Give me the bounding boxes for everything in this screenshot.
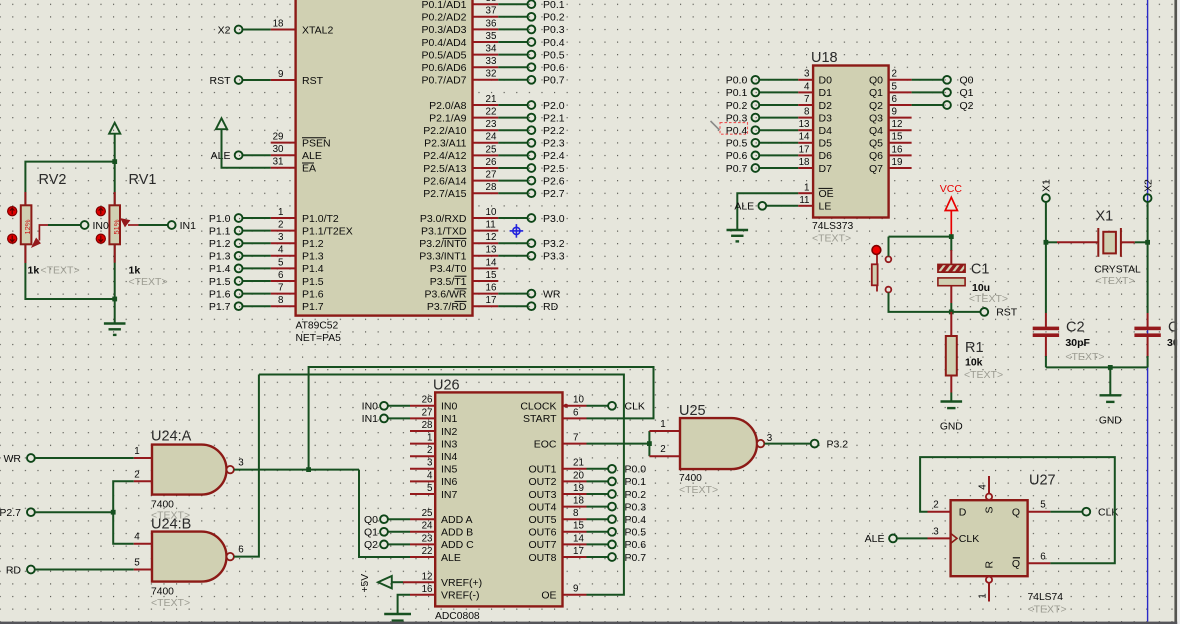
svg-text:12: 12 (892, 119, 903, 130)
window edge bottom (0, 622, 1177, 624)
svg-text:EOC: EOC (534, 438, 557, 450)
svg-text:19: 19 (573, 483, 584, 494)
VCC stem (red) (950, 211, 952, 236)
wire to RST terminal (951, 311, 980, 313)
wire pin 36 to terminal P0.3 (498, 28, 527, 30)
wire OUT5 to P0.4 (587, 518, 609, 520)
window edge right (1174, 0, 1177, 624)
terminal P0.6 (U18) (752, 152, 760, 160)
wire power to EA pin 31 (222, 129, 271, 168)
svg-text:5: 5 (427, 483, 433, 494)
terminal P0.4 (528, 38, 536, 46)
svg-text:P0.2: P0.2 (543, 12, 565, 24)
capacitor C2 (1033, 327, 1059, 337)
svg-text:GND: GND (940, 422, 963, 433)
svg-text:IN0: IN0 (362, 401, 379, 413)
svg-text:D3: D3 (819, 112, 833, 124)
terminal X2 (235, 26, 243, 34)
svg-text:P3.0: P3.0 (543, 213, 565, 225)
wire OE to ground (737, 193, 798, 229)
svg-text:WR: WR (543, 288, 561, 300)
svg-text:P0.6: P0.6 (625, 539, 647, 551)
terminal CLK (608, 402, 616, 410)
NAND gate U24:B body (152, 532, 226, 582)
svg-text:5: 5 (892, 81, 898, 92)
svg-text:P0.1/AD1: P0.1/AD1 (422, 0, 467, 11)
wire button bottom (889, 293, 952, 312)
svg-text:ADD C: ADD C (441, 539, 474, 551)
push button (872, 255, 892, 293)
svg-text:<TEXT>: <TEXT> (679, 484, 718, 496)
U18 pin 6 Q2 (869, 94, 912, 112)
U26 pin 16 VREF(-) (410, 584, 480, 602)
svg-text:P0.4: P0.4 (726, 125, 748, 137)
U26 pin 23 ADD C (410, 533, 474, 551)
svg-text:P0.5/AD5: P0.5/AD5 (422, 49, 467, 61)
wire terminal P1.0 to pin 1 (243, 217, 271, 219)
wire Q1 to ADD B (388, 531, 410, 533)
U26 pin 27 IN1 (410, 407, 458, 425)
svg-text:P3.2/INT0: P3.2/INT0 (419, 238, 466, 250)
U26 pin 25 ADD A (410, 508, 473, 526)
svg-text:13: 13 (799, 119, 810, 130)
U18 pin 16 Q6 (869, 144, 912, 162)
svg-text:20: 20 (573, 470, 584, 481)
wire P2.7 to U24:A pin 2 (113, 481, 134, 512)
junction U24:A output (306, 467, 311, 472)
RV2 top lead maroon part (24, 192, 26, 205)
svg-text:P2.3: P2.3 (543, 138, 565, 150)
U26 pin 21 OUT1 (528, 458, 586, 476)
svg-text:27: 27 (486, 170, 497, 181)
svg-text:24: 24 (422, 521, 433, 532)
svg-text:P0.1: P0.1 (625, 476, 647, 488)
svg-text:OUT2: OUT2 (528, 476, 556, 488)
svg-text:Q0: Q0 (869, 75, 883, 87)
terminal P0.3 (528, 26, 536, 34)
U26 pin 1 IN3 (410, 433, 458, 451)
U26 pin 8 OUT5 (528, 508, 586, 526)
svg-text:9: 9 (573, 584, 578, 595)
U26 pin 10 CLOCK (520, 395, 586, 413)
MCU pin 34 P0.5/AD5 (422, 44, 499, 62)
svg-text:ALE: ALE (441, 552, 461, 564)
junction VCC node (949, 234, 954, 239)
ground at U18 OE (727, 230, 749, 241)
svg-text:<TEXT>: <TEXT> (151, 597, 190, 609)
svg-text:P2.0: P2.0 (543, 100, 565, 112)
svg-text:OUT4: OUT4 (528, 501, 556, 513)
U27 pin 3 CLK stub (928, 537, 951, 539)
svg-text:P1.5: P1.5 (209, 276, 231, 288)
U26 pin 17 OUT8 (528, 546, 586, 564)
svg-text:17: 17 (486, 295, 497, 306)
svg-text:3: 3 (278, 232, 284, 243)
terminal P0.3 (608, 503, 616, 511)
svg-text:29: 29 (273, 132, 284, 143)
wire Q2 to terminal (912, 104, 943, 106)
svg-text:ALE: ALE (734, 201, 754, 213)
U18 pin 4 D1 (798, 81, 832, 99)
junction pots bottom (112, 297, 117, 302)
svg-text:11: 11 (799, 195, 809, 206)
terminal IN0 (81, 221, 89, 229)
R1 bottom lead (950, 376, 952, 393)
wire P2.7 (35, 511, 113, 513)
svg-text:2: 2 (892, 69, 897, 80)
svg-text:7: 7 (804, 94, 809, 105)
wire WR to U24:A pin 1 (35, 457, 134, 459)
wire to crystal ground (1109, 367, 1111, 394)
svg-text:4: 4 (134, 532, 140, 543)
MCU pin 6 P1.5 (271, 270, 324, 288)
power symbol at EA (216, 118, 227, 129)
svg-text:Q5: Q5 (869, 138, 883, 150)
svg-text:6: 6 (1040, 551, 1046, 562)
svg-text:WR: WR (4, 453, 22, 465)
svg-text:P0.6: P0.6 (543, 62, 565, 74)
U18 pin 13 D4 (798, 119, 832, 137)
svg-text:25: 25 (486, 144, 497, 155)
svg-text:17: 17 (573, 546, 584, 557)
svg-text:P0.0: P0.0 (625, 464, 647, 476)
wire pin 24 to terminal P2.3 (498, 142, 527, 144)
svg-text:P3.5/T1: P3.5/T1 (430, 276, 467, 288)
svg-text:28: 28 (486, 182, 497, 193)
svg-text:24: 24 (486, 132, 497, 143)
svg-text:IN7: IN7 (441, 489, 458, 501)
svg-text:1k: 1k (28, 264, 40, 276)
U26 pin 7 EOC (534, 433, 587, 451)
wire +5V to VREF(+) (392, 581, 403, 583)
svg-text:RST: RST (996, 307, 1018, 319)
wire terminal P1.5 to pin 6 (243, 280, 271, 282)
svg-text:7: 7 (573, 433, 578, 444)
svg-text:CLK: CLK (959, 533, 979, 545)
terminal ALE (U18) (758, 202, 766, 210)
svg-text:Q0: Q0 (960, 75, 974, 87)
terminal WR (27, 454, 35, 462)
U26 pin 28 IN2 (410, 420, 458, 438)
svg-text:OUT5: OUT5 (528, 514, 556, 526)
svg-text:16: 16 (422, 584, 433, 595)
svg-text:P0.6: P0.6 (726, 150, 748, 162)
svg-text:9: 9 (892, 107, 897, 118)
wire terminal X2 to pin 18 (243, 29, 271, 31)
svg-text:3: 3 (804, 69, 810, 80)
MCU pin 29 PSEN (271, 132, 331, 150)
svg-text:LE: LE (819, 201, 832, 213)
svg-text:18: 18 (799, 157, 810, 168)
svg-text:18: 18 (573, 496, 584, 507)
IC U26 ADC0808 body (435, 392, 562, 606)
svg-text:37: 37 (486, 6, 497, 17)
U18 pin 18 D7 (798, 157, 832, 175)
terminal P2.5 (528, 164, 536, 172)
U18 pin 3 D0 (798, 69, 832, 87)
U26 pin 24 ADD B (410, 521, 473, 539)
capacitor C3 (1134, 327, 1160, 337)
svg-text:R: R (983, 561, 995, 569)
U26 pin 18 OUT4 (528, 496, 586, 514)
svg-text:U24:A: U24:A (151, 429, 192, 445)
svg-text:P3.7/RD: P3.7/RD (427, 301, 467, 313)
terminal P0.3 (U18) (752, 114, 760, 122)
svg-text:22: 22 (486, 107, 497, 118)
U26 pin 22 ALE (410, 546, 461, 564)
MCU pin 37 P0.2/AD2 (422, 6, 499, 24)
wire R1 to ground (950, 393, 952, 401)
RV1 lead maroon part (114, 244, 116, 262)
U26 pin 3 IN5 (410, 458, 458, 476)
wire X1 net to crystal (1046, 241, 1057, 243)
svg-text:P3.2: P3.2 (543, 238, 565, 250)
svg-text:P2.0/A8: P2.0/A8 (429, 100, 467, 112)
svg-text:D6: D6 (819, 150, 833, 162)
wire terminal ALE to pin 30 (243, 154, 271, 156)
U27 pin 1 R (bottom) (986, 577, 992, 583)
wire pin 10 to terminal P3.0 (498, 217, 527, 219)
U27 pin 5 Q stub (1028, 511, 1051, 513)
svg-text:CRYSTAL: CRYSTAL (1094, 265, 1141, 276)
svg-text:<TEXT>: <TEXT> (41, 264, 80, 276)
terminal X2 (1144, 194, 1152, 202)
U18 pin 7 D2 (798, 94, 832, 112)
wire crystal to X2 net (1135, 241, 1148, 243)
net U24:A out to ADC START/ALE (309, 367, 654, 470)
svg-text:6: 6 (573, 407, 579, 418)
wire C3 to gnd rail (1147, 356, 1149, 367)
svg-text:Q: Q (1012, 507, 1020, 519)
U25 output bubble (757, 440, 764, 447)
svg-text:P0.5: P0.5 (726, 138, 748, 150)
MCU pin 2 P1.1/T2EX (271, 220, 353, 238)
wire pin 12 to terminal P3.2 (498, 242, 527, 244)
svg-text:OUT7: OUT7 (528, 539, 556, 551)
svg-text:D0: D0 (819, 75, 833, 87)
svg-text:P2.2: P2.2 (543, 125, 565, 137)
svg-text:P2.1: P2.1 (543, 112, 565, 124)
svg-text:Q0: Q0 (364, 514, 378, 526)
button red indicator (872, 246, 881, 255)
NAND gate U24:A body (152, 445, 226, 495)
U24:B pin 4 stub (134, 543, 152, 545)
svg-text:<TEXT>: <TEXT> (1096, 275, 1135, 287)
svg-text:Q7: Q7 (869, 163, 883, 175)
MCU pin 33 P0.6/AD6 (422, 56, 499, 74)
terminal Q2 (380, 541, 388, 549)
wire Q0 to terminal (912, 79, 943, 81)
MCU pin 23 P2.2/A10 (423, 119, 498, 137)
terminal P1.1 (235, 227, 243, 235)
svg-text:IN4: IN4 (441, 451, 458, 463)
svg-text:28: 28 (422, 420, 433, 431)
svg-text:33: 33 (486, 56, 497, 67)
svg-text:START: START (523, 413, 557, 425)
svg-text:23: 23 (422, 533, 433, 544)
wire terminal P1.1 to pin 2 (243, 230, 271, 232)
svg-text:2: 2 (660, 444, 665, 455)
svg-text:10k: 10k (965, 357, 983, 369)
svg-text:51%: 51% (112, 219, 121, 234)
svg-text:4: 4 (804, 81, 810, 92)
wire pin 35 to terminal P0.4 (498, 41, 527, 43)
svg-text:14: 14 (573, 533, 584, 544)
svg-text:IN1: IN1 (180, 220, 197, 232)
C1 bottom lead (950, 286, 952, 303)
svg-text:D1: D1 (819, 87, 833, 99)
U26 pin 19 OUT3 (528, 483, 586, 501)
svg-text:4: 4 (278, 245, 284, 256)
cursor crosshair marker (510, 224, 524, 238)
svg-text:17: 17 (799, 144, 810, 155)
terminal P0.5 (U18) (752, 139, 760, 147)
U18 pin 12 Q4 (869, 119, 912, 137)
wire Q2 to ADD C (388, 543, 410, 545)
terminal P2.0 (528, 101, 536, 109)
svg-text:P2.2/A10: P2.2/A10 (423, 125, 466, 137)
svg-text:6: 6 (278, 270, 284, 281)
svg-text:2: 2 (134, 469, 139, 480)
svg-text:6: 6 (238, 545, 244, 556)
svg-text:P2.4/A12: P2.4/A12 (423, 150, 466, 162)
IC U27 74LS74 body (951, 500, 1028, 576)
svg-text:IN5: IN5 (441, 464, 458, 476)
wire P0.4 to D4 (759, 129, 798, 131)
MCU pin 9 RST (271, 69, 324, 87)
terminal P3.3 (528, 252, 536, 260)
svg-text:12: 12 (486, 232, 497, 243)
MCU pin 21 P2.0/A8 (429, 94, 498, 112)
MCU pin 5 P1.4 (271, 257, 324, 275)
svg-text:1: 1 (660, 419, 665, 430)
svg-text:RV1: RV1 (129, 172, 157, 188)
wire pin 25 to terminal P2.4 (498, 154, 527, 156)
wire C2 to gnd rail (1045, 356, 1047, 367)
svg-text:P3.0/RXD: P3.0/RXD (420, 213, 467, 225)
svg-text:VREF(+): VREF(+) (441, 577, 482, 589)
wire U24:A output net (234, 469, 359, 471)
terminal P0.2 (U18) (752, 101, 760, 109)
svg-text:ADD A: ADD A (441, 514, 473, 526)
terminal P2.4 (528, 152, 536, 160)
wire terminal P1.3 to pin 4 (243, 255, 271, 257)
svg-text:Q2: Q2 (869, 100, 883, 112)
svg-text:X1: X1 (1041, 179, 1053, 192)
svg-text:6: 6 (892, 94, 898, 105)
wire terminal P1.7 to pin 8 (243, 305, 271, 307)
terminal P2.1 (528, 114, 536, 122)
svg-text:X2: X2 (218, 24, 231, 36)
terminal IN1 (380, 415, 388, 423)
svg-text:P2.3/A11: P2.3/A11 (424, 138, 467, 150)
terminal P0.4 (U18) (752, 126, 760, 134)
svg-text:<TEXT>: <TEXT> (129, 276, 168, 288)
svg-text:26: 26 (422, 395, 433, 406)
svg-text:30pF: 30pF (1065, 337, 1090, 349)
svg-text:P0.5: P0.5 (625, 527, 647, 539)
wire Q0 to ADD A (388, 518, 410, 520)
ground at VREF(-) (384, 614, 411, 621)
svg-text:P0.3: P0.3 (625, 501, 647, 513)
svg-text:OUT6: OUT6 (528, 527, 556, 539)
svg-text:4: 4 (978, 484, 989, 490)
svg-text:22: 22 (422, 546, 433, 557)
svg-text:2: 2 (427, 445, 432, 456)
terminal Q2 (943, 101, 951, 109)
MCU pin 31 EA (271, 157, 316, 175)
wire OUT7 to P0.6 (587, 543, 609, 545)
svg-text:ADD B: ADD B (441, 527, 473, 539)
MCU pin 27 P2.6/A14 (423, 170, 498, 188)
terminal P0.4 (608, 515, 616, 523)
svg-text:PSEN: PSEN (302, 137, 331, 149)
svg-text:OE: OE (819, 188, 834, 200)
terminal RD (528, 302, 536, 310)
feedback wire Qbar to D (920, 457, 1115, 563)
junction pots top (112, 159, 117, 164)
svg-text:P0.5: P0.5 (543, 49, 565, 61)
svg-text:<TEXT>: <TEXT> (969, 293, 1008, 305)
MCU pin 12 P3.2/INT0 (419, 232, 498, 250)
svg-text:P1.3: P1.3 (209, 251, 231, 263)
svg-text:7400: 7400 (679, 473, 702, 484)
svg-text:U27: U27 (1029, 473, 1056, 489)
svg-text:34: 34 (486, 44, 497, 55)
svg-text:RV2: RV2 (39, 172, 67, 188)
svg-text:RST: RST (210, 75, 232, 87)
svg-text:P3.3/INT1: P3.3/INT1 (419, 251, 466, 263)
U18 pin 8 D3 (798, 107, 832, 125)
svg-text:P0.7: P0.7 (726, 163, 748, 175)
terminal P1.7 (235, 302, 243, 310)
U27 pin 4 S (top) (986, 494, 992, 500)
wire P0.1 to D1 (759, 91, 798, 93)
svg-text:Q3: Q3 (869, 112, 883, 124)
wire pin 13 to terminal P3.3 (498, 255, 527, 257)
svg-text:P1.3: P1.3 (302, 251, 324, 263)
terminal Q0 (943, 76, 951, 84)
U27 CLK triangle (951, 533, 957, 543)
wire U25 out to P3.2 (764, 443, 810, 445)
svg-text:P1.0/T2: P1.0/T2 (302, 213, 339, 225)
U26 pin 12 VREF(+) (403, 571, 482, 589)
wire IN1 terminal (388, 417, 410, 419)
terminal P2.7 (27, 508, 35, 516)
RV2 wiper arm (32, 225, 48, 247)
svg-text:D4: D4 (819, 125, 833, 137)
MCU pin 10 P3.0/RXD (420, 207, 498, 225)
svg-text:Q: Q (1012, 558, 1020, 570)
terminal P1.5 (235, 277, 243, 285)
RV2 lead maroon part (24, 244, 26, 263)
MCU pin 11 P3.1/TXD (421, 220, 498, 238)
svg-text:OUT1: OUT1 (528, 464, 556, 476)
svg-text:3: 3 (767, 433, 773, 444)
svg-text:15: 15 (486, 270, 497, 281)
svg-text:<TEXT>: <TEXT> (1028, 604, 1067, 616)
svg-text:14: 14 (486, 257, 497, 268)
U24:A pin 2 stub (134, 480, 152, 482)
svg-text:5: 5 (1040, 500, 1046, 511)
svg-text:13: 13 (486, 245, 497, 256)
wire OUT3 to P0.2 (587, 493, 609, 495)
terminal Q1 (380, 528, 388, 536)
wire OUT4 to P0.3 (587, 506, 609, 508)
svg-text:1: 1 (978, 593, 989, 598)
svg-text:S: S (983, 506, 995, 513)
svg-text:21: 21 (573, 458, 584, 469)
